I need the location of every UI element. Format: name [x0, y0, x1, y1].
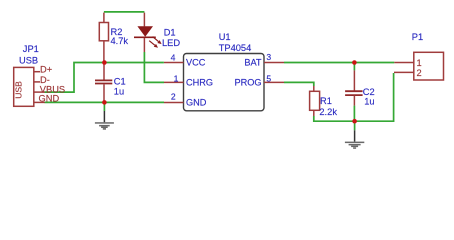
JP1 pin D+ stub: [34, 71, 40, 73]
LED D1: [143, 13, 145, 27]
svg-text:BAT: BAT: [244, 58, 262, 68]
wire LED to CHRG: [144, 52, 164, 82]
svg-text:VCC: VCC: [186, 58, 206, 68]
ground symbol left: [95, 111, 114, 130]
svg-text:USB: USB: [14, 81, 24, 99]
svg-text:4.7k: 4.7k: [111, 36, 129, 46]
svg-text:4: 4: [171, 53, 176, 63]
svg-text:LED: LED: [162, 38, 180, 48]
wire ground stem left: [103, 102, 105, 111]
LED arrow 1: [153, 37, 162, 45]
wire ground stem right: [354, 121, 356, 130]
wire BAT row: [284, 62, 394, 64]
resistor R1: [313, 86, 315, 91]
svg-text:1: 1: [174, 74, 179, 84]
LED arrow 2: [149, 41, 158, 48]
capacitor C2: [353, 70, 355, 90]
svg-text:TP4054: TP4054: [219, 43, 252, 53]
svg-text:GND: GND: [39, 94, 60, 104]
wire R1 bottom row to P1 pin2: [314, 73, 394, 121]
JP1 pin VBUS stub: [34, 91, 45, 93]
wire VBUS to VCC row: [45, 63, 164, 93]
wire C2 top: [353, 63, 355, 71]
IC U1 box: [184, 54, 265, 111]
connector P1 box: [414, 52, 444, 80]
svg-text:P1: P1: [412, 32, 423, 42]
svg-text:JP1: JP1: [23, 44, 39, 54]
capacitor C1: [103, 63, 105, 80]
junction dot VCC/R2/C1: [102, 60, 107, 65]
svg-text:D1: D1: [164, 28, 176, 38]
svg-text:C1: C1: [114, 77, 126, 87]
svg-text:2: 2: [417, 68, 422, 78]
junction dot BAT/C2: [352, 60, 357, 65]
wire C2 bottom: [353, 106, 355, 122]
svg-text:U1: U1: [219, 32, 231, 42]
P1 pin 1 lead: [394, 62, 414, 64]
pin BAT lead: [264, 62, 284, 64]
svg-text:CHRG: CHRG: [186, 78, 213, 88]
svg-text:1u: 1u: [364, 96, 374, 106]
connector JP1 box: [14, 67, 34, 106]
P1 pin 2 lead: [394, 71, 414, 73]
wire top rail R2 to D1: [104, 11, 144, 13]
JP1 pin GND stub: [34, 101, 45, 103]
pin PROG lead: [264, 81, 284, 83]
svg-text:GND: GND: [186, 98, 207, 108]
junction dot bottom row/C2: [352, 119, 357, 124]
svg-text:1: 1: [417, 58, 422, 68]
pin VCC lead: [164, 62, 184, 64]
svg-text:USB: USB: [19, 56, 38, 66]
wire GND row USB to IC: [45, 101, 165, 103]
pin CHRG lead: [164, 81, 184, 83]
wire PROG to R1: [284, 82, 314, 86]
JP1 pin D- stub: [34, 81, 40, 83]
svg-text:5: 5: [266, 74, 271, 84]
junction dot GND/C1: [102, 100, 107, 105]
pin GND lead: [164, 102, 184, 104]
ground symbol right: [345, 130, 364, 149]
svg-text:2: 2: [171, 92, 176, 102]
svg-text:2.2k: 2.2k: [319, 107, 337, 117]
resistor R2: [103, 13, 105, 23]
svg-text:3: 3: [266, 52, 271, 62]
svg-text:PROG: PROG: [234, 78, 261, 88]
svg-text:D+: D+: [40, 65, 52, 75]
svg-text:1u: 1u: [114, 86, 124, 96]
svg-text:R1: R1: [320, 96, 332, 106]
